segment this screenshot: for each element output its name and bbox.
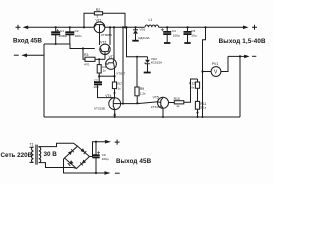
- diode on bottom-right edge: [80, 160, 86, 166]
- svg-text:VT2: VT2: [100, 40, 106, 44]
- svg-text:Выход 45В: Выход 45В: [116, 158, 152, 165]
- node input minus terminal: [14, 54, 27, 58]
- wire top rail mid segments: [105, 26, 145, 28]
- svg-text:C1: C1: [60, 29, 64, 33]
- resistor R11: [195, 88, 206, 118]
- resistor R7: [112, 69, 122, 99]
- transistor VT2: [100, 40, 110, 59]
- node bottom plus terminal: [105, 140, 120, 145]
- wire collector bus x123: [122, 27, 124, 103]
- svg-text:Т1: Т1: [30, 142, 34, 146]
- svg-text:100n: 100n: [75, 34, 82, 38]
- capacitor C2: [65, 26, 81, 44]
- svg-text:R10: R10: [174, 97, 180, 101]
- resistor R2 (parallel to VT1): [83, 8, 126, 29]
- diode on top-right edge: [80, 148, 86, 154]
- capacitor C4: [161, 26, 180, 43]
- svg-text:VT1: VT1: [96, 18, 102, 22]
- svg-text:20n: 20n: [94, 85, 99, 89]
- svg-text:КТ315Б: КТ315Б: [151, 105, 162, 109]
- svg-text:R3: R3: [84, 53, 88, 57]
- svg-text:C4: C4: [172, 29, 176, 33]
- wire zener bus x126.5: [127, 27, 148, 57]
- svg-text:C5: C5: [191, 29, 195, 33]
- transformer T1: [30, 142, 41, 164]
- capacitor C5: [184, 26, 197, 43]
- diode VD1: [132, 26, 150, 41]
- svg-text:5,1к: 5,1к: [200, 106, 206, 110]
- svg-text:Вход 45В: Вход 45В: [13, 37, 42, 44]
- voltmeter PV1: [203, 56, 229, 76]
- bridge rectifier diamond: [65, 146, 90, 168]
- wire bridge plus output: [90, 142, 105, 157]
- svg-text:R7: R7: [118, 82, 122, 86]
- diode on bottom-left edge: [68, 160, 74, 166]
- svg-text:100µ: 100µ: [102, 157, 109, 161]
- wire VT4 emitter to rail: [114, 110, 116, 118]
- resistor R4: [97, 58, 115, 77]
- svg-text:R2: R2: [96, 8, 100, 12]
- wire bridge minus output: [64, 158, 105, 173]
- node output minus terminal: [228, 55, 256, 59]
- svg-text:КТ908А: КТ908А: [101, 33, 113, 37]
- transistor VT4 KT315B: [94, 94, 120, 110]
- svg-text:КТ817: КТ817: [117, 71, 126, 75]
- svg-text:PV1: PV1: [212, 62, 219, 66]
- svg-text:L1: L1: [149, 18, 153, 22]
- wire mains stubs: [30, 147, 34, 162]
- wire top rail left: [28, 26, 95, 28]
- svg-text:Выход 1,5-40В: Выход 1,5-40В: [219, 38, 266, 45]
- svg-text:Сеть 220В: Сеть 220В: [1, 152, 33, 159]
- wire VT3 collector to rail: [113, 27, 115, 59]
- wire T1 secondary top to bridge top corner: [39, 143, 78, 147]
- wire VT4 base link to VT5: [121, 102, 158, 104]
- wire VT1 base down: [99, 33, 101, 45]
- svg-text:КТ315Б: КТ315Б: [94, 107, 105, 111]
- svg-text:30 В: 30 В: [44, 151, 58, 158]
- resistor R9: [135, 56, 146, 104]
- transistor VT5 KT315B: [151, 95, 169, 109]
- capacitor C9: [92, 141, 108, 175]
- svg-text:C2: C2: [75, 29, 79, 33]
- inductor L1: [145, 18, 159, 27]
- wire left bus vertical: [43, 44, 45, 117]
- svg-text:VT5: VT5: [153, 95, 159, 99]
- svg-text:100µ: 100µ: [173, 34, 180, 38]
- wire middle rail upper (C1 C2 bottoms): [44, 44, 95, 49]
- svg-text:КС515А: КС515А: [151, 61, 163, 65]
- node output plus terminal: [243, 25, 257, 30]
- svg-text:C7: C7: [94, 78, 98, 82]
- transistor VT1 KT908A: [94, 18, 113, 36]
- svg-text:VT4: VT4: [105, 94, 111, 98]
- svg-text:КД213А: КД213А: [139, 36, 151, 40]
- svg-text:10µ: 10µ: [191, 34, 196, 38]
- diode on top-left edge: [68, 149, 74, 155]
- wire bottom rail of regulator: [44, 116, 240, 118]
- node input plus terminal: [16, 25, 29, 30]
- resistor R10: [174, 79, 198, 108]
- svg-text:470: 470: [84, 62, 89, 66]
- resistor R12: [189, 79, 200, 89]
- wire PV1 branch vertical: [203, 27, 206, 117]
- wire T1 secondary bottom to bridge bottom corner: [39, 163, 77, 169]
- capacitor C1: [51, 26, 67, 45]
- capacitor C7: [94, 76, 115, 97]
- wire VT5 emitter to rail: [162, 108, 164, 117]
- wire VT2 collector to rail: [109, 27, 111, 45]
- wire VT5 collector to R10: [169, 102, 175, 104]
- wire input minus to left bus: [27, 54, 45, 56]
- svg-text:VD1: VD1: [140, 27, 146, 31]
- svg-text:1,2к: 1,2к: [140, 91, 146, 95]
- zener VD2 KS515A: [144, 57, 163, 73]
- resistor R3: [82, 47, 105, 66]
- node bottom minus terminal: [104, 171, 119, 175]
- wire minus drop to bottom rail: [239, 56, 241, 117]
- svg-text:10к: 10к: [190, 85, 195, 89]
- transistor VT3 KT817: [106, 55, 126, 75]
